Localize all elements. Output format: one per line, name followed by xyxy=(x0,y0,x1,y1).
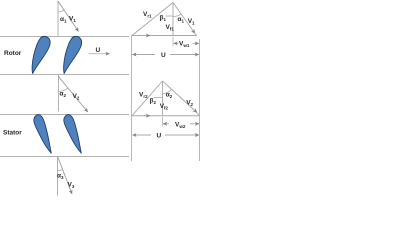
svg-text:U: U xyxy=(157,133,162,140)
svg-text:Rotor: Rotor xyxy=(4,50,22,57)
svg-text:Stator: Stator xyxy=(3,130,22,137)
svg-text:U: U xyxy=(96,47,101,54)
svg-text:U: U xyxy=(161,52,166,59)
